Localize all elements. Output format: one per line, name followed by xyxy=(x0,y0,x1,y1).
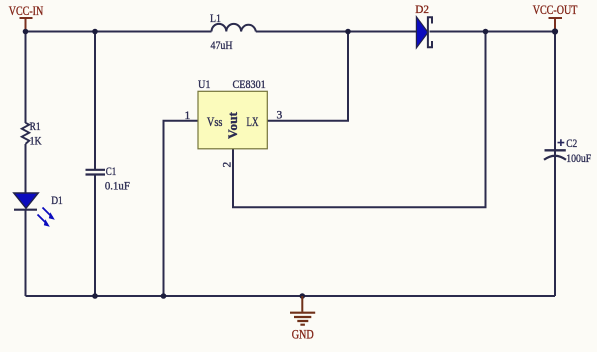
svg-text:47uH: 47uH xyxy=(211,38,233,52)
svg-text:R1: R1 xyxy=(30,121,41,133)
svg-text:Vss: Vss xyxy=(207,115,223,129)
svg-text:Vout: Vout xyxy=(226,111,240,139)
svg-text:D2: D2 xyxy=(415,2,429,16)
capacitor C1 xyxy=(86,164,131,193)
svg-text:C2: C2 xyxy=(566,136,577,150)
power flag VCC-IN xyxy=(9,3,44,32)
node junction pin2 top xyxy=(483,29,489,35)
node junction C1 bottom xyxy=(92,293,98,299)
IC U1 CE8301 body xyxy=(185,77,283,168)
svg-text:100uF: 100uF xyxy=(566,151,591,165)
ground symbol GND xyxy=(290,296,315,342)
wire pin2 loop xyxy=(233,32,486,208)
resistor R1 xyxy=(22,121,42,148)
wire right rail xyxy=(554,32,556,297)
diode D2 (schottky) xyxy=(415,2,432,48)
svg-text:C1: C1 xyxy=(106,164,117,178)
wire pin1 to ground xyxy=(164,121,198,296)
svg-text:LX: LX xyxy=(247,115,259,129)
node junction C1 top xyxy=(92,29,98,35)
node junction pin1 bottom xyxy=(161,293,167,299)
svg-text:VCC-OUT: VCC-OUT xyxy=(533,2,578,17)
svg-text:U1: U1 xyxy=(198,77,211,91)
svg-text:L1: L1 xyxy=(210,11,221,25)
wire left rail xyxy=(25,32,27,297)
power flag VCC-OUT xyxy=(533,2,578,32)
capacitor C2 (polarized) xyxy=(544,136,591,165)
svg-text:CE8301: CE8301 xyxy=(233,77,266,91)
svg-text:D1: D1 xyxy=(51,193,63,207)
node junction pin3 top xyxy=(345,29,351,35)
svg-text:GND: GND xyxy=(292,328,314,342)
node junction VCC-IN xyxy=(23,29,29,35)
wire pin3 riser xyxy=(267,32,348,121)
wire bottom bus xyxy=(26,295,556,297)
svg-text:VCC-IN: VCC-IN xyxy=(9,3,44,18)
node junction GND xyxy=(300,293,306,299)
svg-text:1K: 1K xyxy=(30,136,43,148)
svg-text:0.1uF: 0.1uF xyxy=(105,179,130,193)
wire C1 branch xyxy=(94,32,96,297)
svg-text:3: 3 xyxy=(277,110,283,122)
LED D1 xyxy=(14,193,63,227)
svg-text:2: 2 xyxy=(222,162,234,168)
wire top bus xyxy=(26,31,556,33)
inductor L1 xyxy=(210,11,256,52)
node junction VCC-OUT xyxy=(552,28,558,34)
svg-text:1: 1 xyxy=(185,110,191,122)
